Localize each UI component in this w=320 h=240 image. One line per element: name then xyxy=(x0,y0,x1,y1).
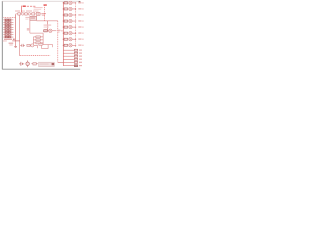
net text right of D9 xyxy=(57,30,60,31)
resistor bank R14 xyxy=(33,42,36,44)
wire across to resistor bank xyxy=(30,32,43,34)
resistor R5 xyxy=(64,26,68,28)
polarized cap C3 xyxy=(28,13,31,16)
connector J2 last pad dark xyxy=(74,65,77,67)
resistor R16 xyxy=(31,63,33,65)
wire branch down to D9 xyxy=(47,21,49,30)
LED D6 xyxy=(69,31,73,35)
wire from S1 to right trunk xyxy=(37,20,58,22)
connector J2 pin pads xyxy=(74,49,77,63)
net D1 text xyxy=(78,2,81,3)
ground GND stem xyxy=(15,41,17,47)
wire staircase vertical A xyxy=(52,45,54,48)
resistor R11 xyxy=(44,30,48,32)
VCC net name text xyxy=(27,6,29,7)
LED D2 xyxy=(69,7,73,11)
resistor R4 xyxy=(64,20,68,22)
top row label text xyxy=(15,10,20,11)
right return bus dashed xyxy=(75,3,77,47)
crystal Y1 xyxy=(36,12,40,15)
capacitor C4 plates xyxy=(20,44,22,46)
resistor R7 xyxy=(64,38,68,40)
buzzer LS1 xyxy=(27,60,29,67)
switch S1 box xyxy=(30,16,37,20)
bottom power rail dashed xyxy=(20,55,51,57)
resistor R9 xyxy=(25,13,28,15)
LED D3 xyxy=(69,13,73,17)
connector J1 body xyxy=(39,62,55,66)
LED D8 xyxy=(69,44,73,48)
top row wire xyxy=(16,13,45,15)
wire staircase vertical B xyxy=(47,45,49,49)
IC U1 pins xyxy=(3,20,13,37)
wire D9 to trunk xyxy=(52,30,56,32)
resistor R15 xyxy=(27,44,30,46)
ground GND bars xyxy=(14,46,17,48)
resistor R1 xyxy=(64,2,68,4)
junction dots xyxy=(63,2,64,45)
wire horizontal under IC xyxy=(12,40,20,42)
frame right corner mark xyxy=(79,1,81,3)
wire stub down xyxy=(37,45,39,48)
frame top border xyxy=(2,0,80,2)
D9 label text xyxy=(44,25,52,26)
wire staircase horizontal A xyxy=(43,44,53,46)
resistor R2 xyxy=(64,8,68,10)
S1 label text xyxy=(25,17,29,18)
resistor R6 xyxy=(64,32,68,34)
wire vertical to bottom rail xyxy=(19,15,21,56)
LED D10 xyxy=(29,44,32,46)
connector J2 pin wires xyxy=(63,50,74,65)
title text block xyxy=(34,7,43,8)
LED D9 xyxy=(47,30,48,32)
resistor R10 xyxy=(32,13,35,15)
battery BT1 xyxy=(19,63,21,65)
GND text xyxy=(9,43,14,44)
J2 net text labels xyxy=(79,50,82,67)
wire S1 left down xyxy=(29,20,31,33)
resistor R8 xyxy=(64,44,68,46)
net D8 text xyxy=(78,45,81,46)
IC U1 label text xyxy=(4,39,12,40)
net D7 text xyxy=(78,38,81,39)
polarized cap C2 xyxy=(21,13,24,16)
LED D7 xyxy=(69,37,73,41)
net D6 text xyxy=(78,32,81,33)
capacitor C1 xyxy=(18,13,21,15)
trunk to right bus xyxy=(58,62,64,64)
frame left border xyxy=(1,1,3,69)
LED channel rows xyxy=(64,1,84,5)
resistor bank R13 xyxy=(33,39,36,41)
power flag VDD xyxy=(44,5,46,21)
small box component xyxy=(39,43,42,45)
resistor R3 xyxy=(64,14,68,16)
IC U1 body xyxy=(5,19,12,38)
LED D5 xyxy=(69,25,73,29)
frame bottom border xyxy=(2,68,80,70)
LED D1 xyxy=(69,1,73,5)
net D3 text xyxy=(78,14,81,15)
net D5 text xyxy=(78,26,81,27)
resistor bank R12 xyxy=(33,36,36,38)
IC U1 pin label boxes xyxy=(5,19,10,38)
right bus wire xyxy=(62,2,64,66)
net label text right of row xyxy=(42,13,46,14)
trunk wire down dashed xyxy=(57,21,59,63)
wire top of IC dashed xyxy=(3,16,15,18)
power flag VCC xyxy=(21,6,23,13)
wire bank down xyxy=(41,43,43,49)
bank right bus wire xyxy=(42,33,44,45)
wire staircase horizontal B xyxy=(42,48,49,50)
bank left bus wire xyxy=(32,37,34,46)
LED D4 xyxy=(69,19,73,23)
node label text xyxy=(27,28,29,31)
net D4 text xyxy=(78,20,81,21)
wire vertical left trunk xyxy=(15,14,17,41)
net D2 text xyxy=(78,8,81,9)
